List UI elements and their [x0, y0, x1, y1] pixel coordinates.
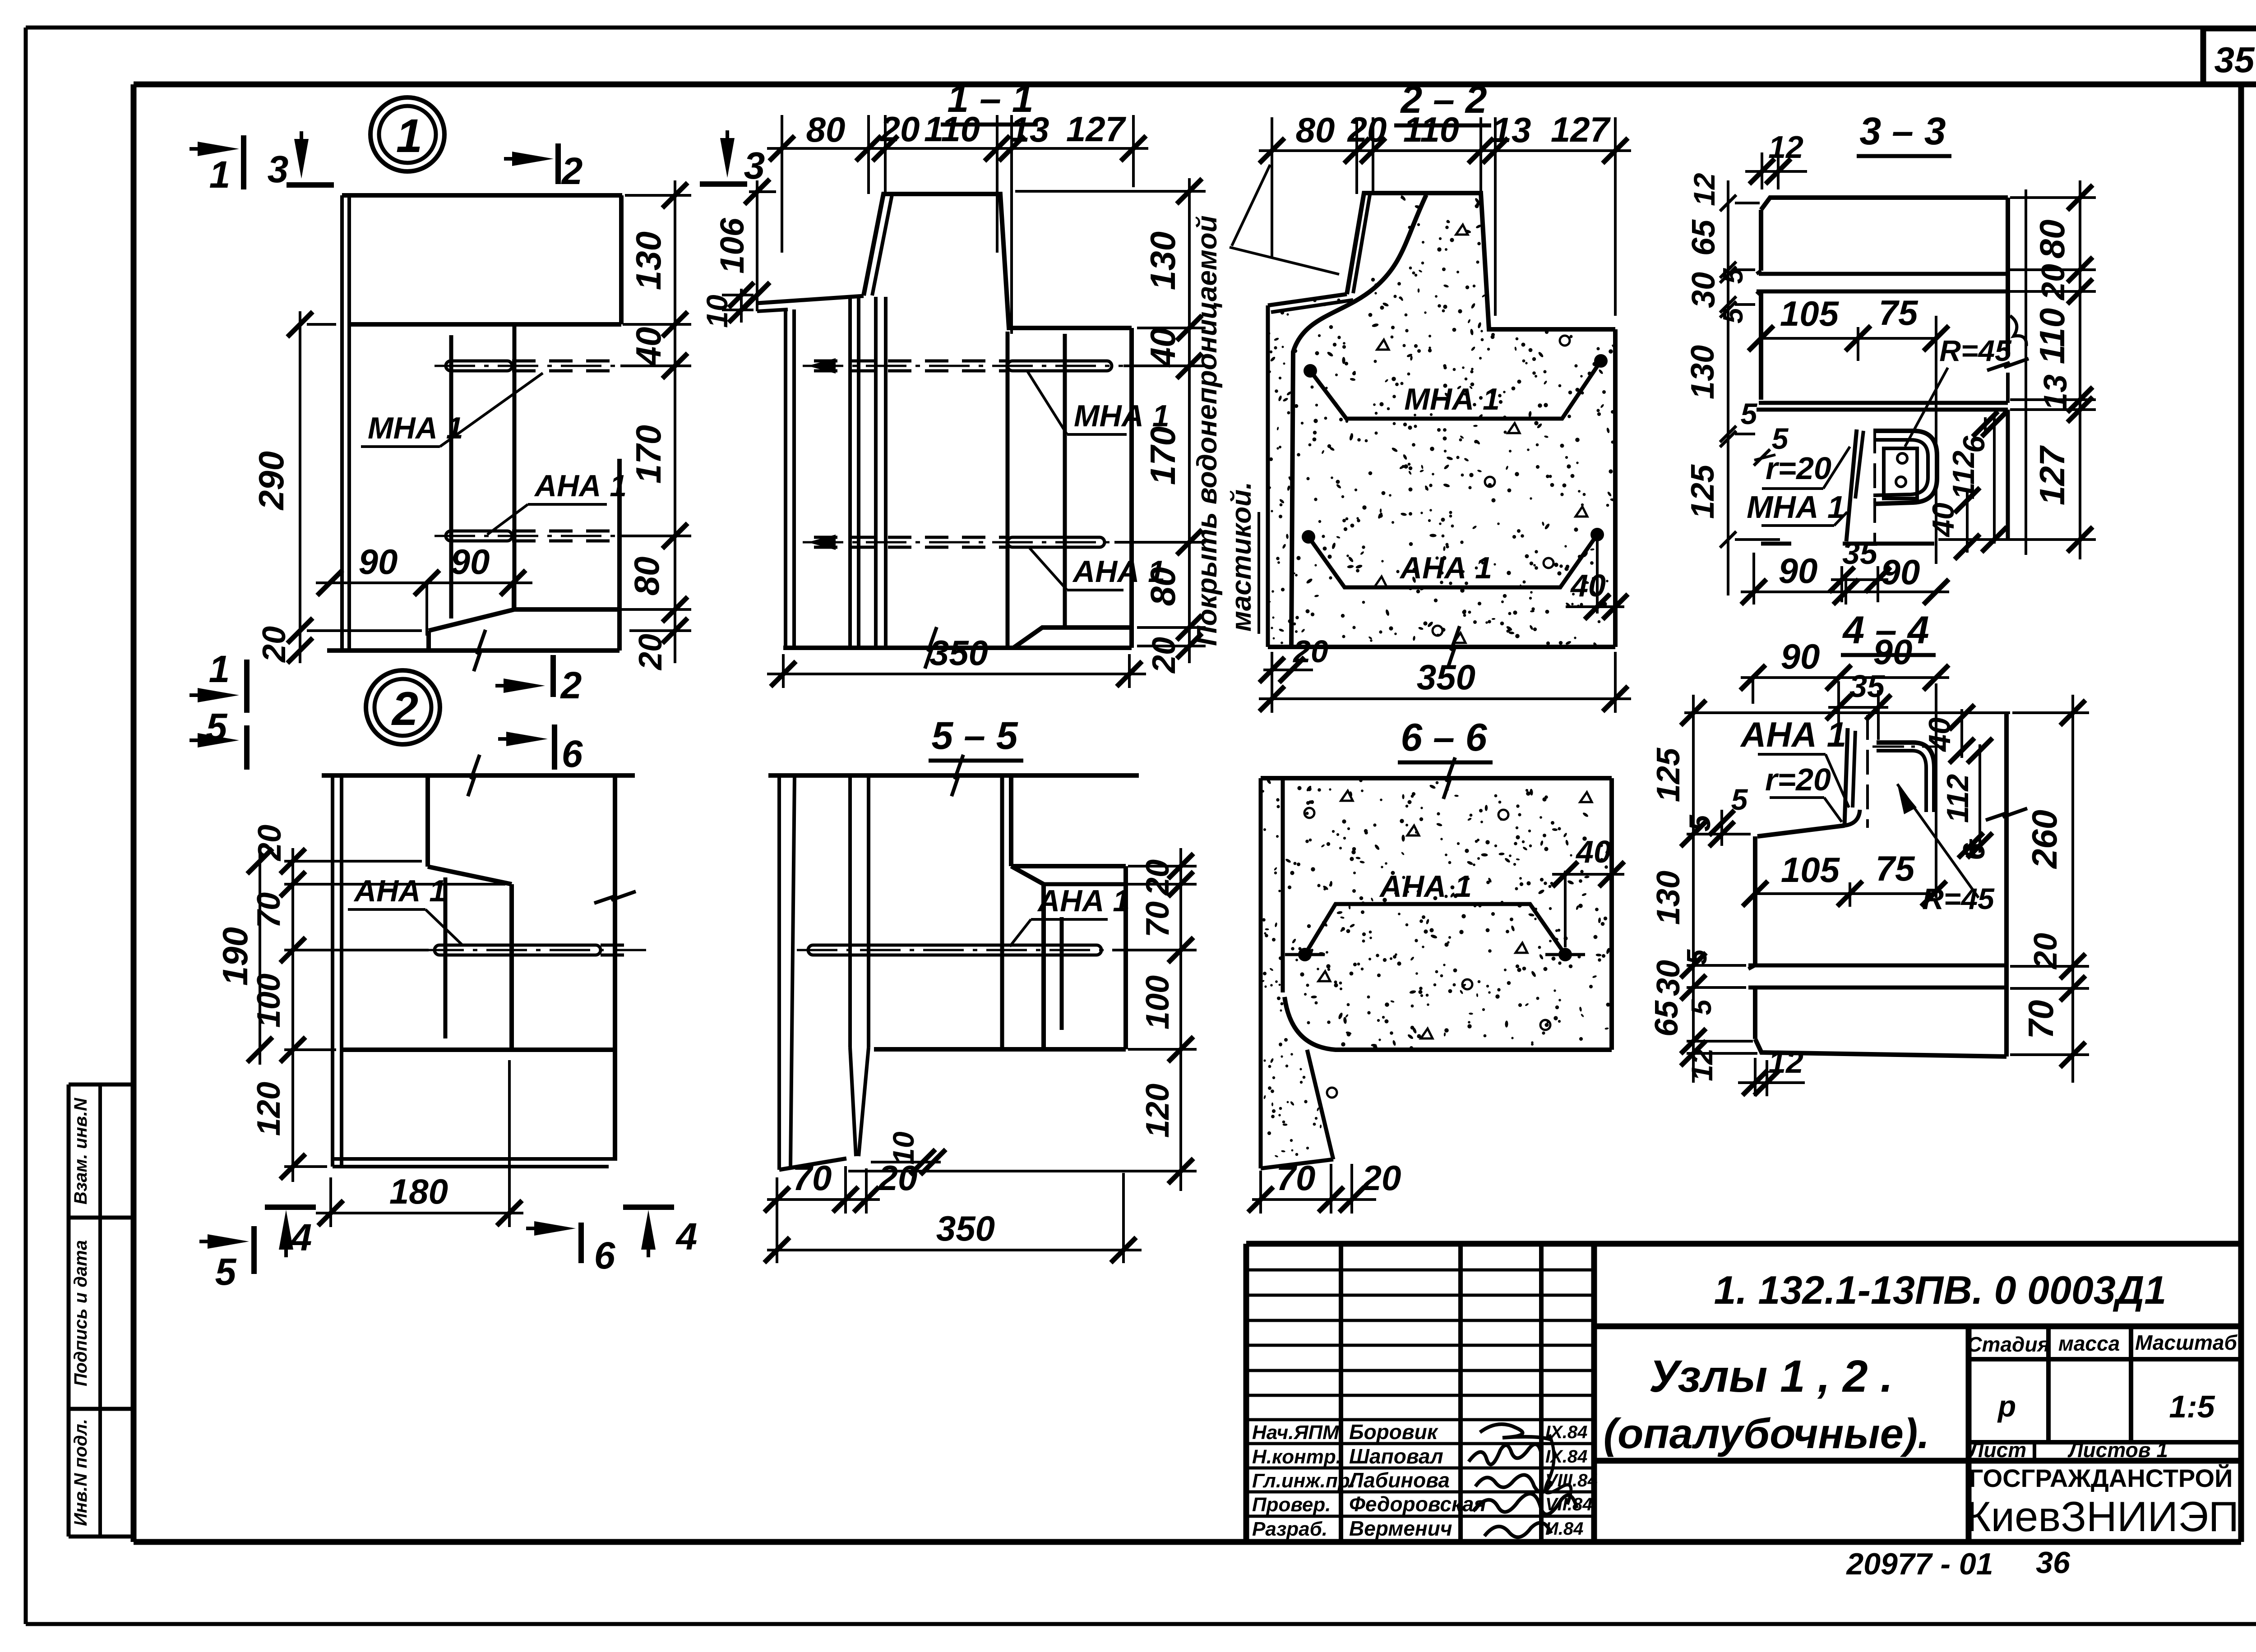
- svg-text:5: 5: [1683, 814, 1716, 831]
- svg-text:105: 105: [1780, 294, 1840, 333]
- signatures (handwritten): [1480, 1424, 1552, 1440]
- 2-2 top dim line: [1259, 149, 1631, 152]
- 6-6 scatter symbols: [1341, 791, 1353, 801]
- 3-3 anchor recess: [1846, 429, 1857, 541]
- marker 6 (right): [498, 737, 534, 741]
- svg-text:127: 127: [1551, 110, 1611, 149]
- svg-text:35: 35: [2214, 40, 2255, 80]
- svg-text:20977 - 01: 20977 - 01: [1845, 1547, 1993, 1581]
- svg-text:40: 40: [629, 327, 668, 367]
- svg-text:Лист: Лист: [1968, 1438, 2026, 1462]
- svg-text:90: 90: [451, 542, 490, 581]
- title block outer: [1246, 1241, 2241, 1247]
- svg-text:75: 75: [1876, 849, 1915, 888]
- svg-text:6: 6: [594, 1234, 616, 1277]
- svg-text:13: 13: [1492, 110, 1531, 150]
- 5-5 mid horizontal: [874, 1047, 1126, 1052]
- svg-text:5: 5: [1682, 949, 1713, 965]
- svg-text:65: 65: [1649, 1000, 1685, 1037]
- svg-text:АНА 1: АНА 1: [353, 874, 446, 908]
- view1 right dim chain: [674, 180, 676, 663]
- svg-text:АНА 1: АНА 1: [1399, 551, 1492, 585]
- svg-text:110: 110: [924, 109, 980, 149]
- anchor vertical (5-5): [1060, 917, 1064, 1030]
- view1 bottom slope: [429, 609, 619, 631]
- svg-text:5: 5: [215, 1251, 237, 1293]
- 5-5 second board pair: [848, 775, 852, 1047]
- stadia column: [1966, 1326, 1972, 1542]
- row Лист: [2033, 1442, 2036, 1461]
- svg-text:100: 100: [1140, 975, 1176, 1029]
- svg-text:5: 5: [1718, 268, 1749, 284]
- 4-4 band double lines: [1748, 964, 2006, 968]
- 1-1 right edge: [1129, 328, 1134, 648]
- svg-text:90: 90: [1881, 552, 1920, 592]
- svg-text:1. 132.1-13ПВ. 0 0003Д1: 1. 132.1-13ПВ. 0 0003Д1: [1714, 1268, 2167, 1312]
- svg-text:3 – 3: 3 – 3: [1859, 110, 1946, 153]
- 5-5 dim 350: [767, 1249, 1142, 1251]
- 3-3 anchor plate: [1884, 448, 1917, 498]
- section marker 1 (top left): [190, 147, 226, 151]
- svg-text:20: 20: [252, 825, 288, 862]
- svg-text:120: 120: [1140, 1084, 1176, 1138]
- 2-2 face curve: [1291, 195, 1426, 647]
- svg-text:190: 190: [215, 927, 255, 986]
- svg-text:R=45: R=45: [1939, 334, 2012, 367]
- 5-5 top edge: [768, 773, 1139, 778]
- 6-6 band lower slant: [1307, 1050, 1333, 1159]
- marker 4 (bottom left): [265, 1204, 316, 1210]
- svg-text:30: 30: [1686, 272, 1722, 308]
- marker 6 (bottom): [526, 1227, 562, 1230]
- anchor rod MHA1 (1-1): [1008, 361, 1112, 371]
- svg-text:30: 30: [1650, 960, 1687, 996]
- 2-2 bottom edge: [1268, 645, 1615, 649]
- 3-3 left edge mid: [1759, 291, 1763, 400]
- svg-text:110: 110: [1403, 110, 1459, 149]
- svg-text:130: 130: [1650, 871, 1687, 925]
- svg-text:4: 4: [290, 1216, 312, 1259]
- view2 left dim chain: [291, 848, 294, 1182]
- svg-text:170: 170: [1143, 426, 1183, 485]
- sheet inner frame: [134, 82, 2241, 88]
- svg-text:350: 350: [1417, 657, 1475, 697]
- 6-6 concrete stipple mass: [1429, 928, 1433, 932]
- MHA1 bent bar (2-2): [1310, 361, 1601, 419]
- svg-text:ГОСГРАЖДАНСТРОЙ: ГОСГРАЖДАНСТРОЙ: [1969, 1464, 2233, 1492]
- 6-6 top edge: [1261, 776, 1612, 780]
- 1-1 wall face verticals: [1006, 332, 1010, 648]
- svg-text:290: 290: [251, 451, 291, 511]
- svg-text:Федоровская: Федоровская: [1349, 1492, 1486, 1516]
- svg-text:Стадия: Стадия: [1967, 1333, 2049, 1356]
- view2 mid ledge: [342, 1047, 615, 1052]
- svg-text:350: 350: [929, 633, 988, 673]
- svg-text:106: 106: [713, 217, 751, 273]
- anchor rod AHA1 (1-1): [1008, 537, 1105, 547]
- svg-text:80: 80: [1143, 567, 1183, 606]
- svg-text:130: 130: [1685, 345, 1721, 399]
- dim 40 (2-2): [1596, 535, 1599, 614]
- svg-text:40: 40: [1143, 328, 1183, 368]
- svg-text:КиевЗНИИЭП: КиевЗНИИЭП: [1966, 1493, 2239, 1540]
- 4-4 dim 90 90: [1741, 676, 1949, 679]
- svg-text:20: 20: [878, 1158, 918, 1198]
- svg-text:100: 100: [251, 974, 287, 1028]
- view1 outline top: [342, 193, 622, 198]
- svg-text:мастикой.: мастикой.: [1226, 482, 1257, 632]
- svg-text:12: 12: [1685, 1048, 1719, 1081]
- svg-text:112: 112: [1941, 774, 1975, 823]
- svg-text:2: 2: [391, 683, 418, 735]
- svg-text:АНА 1: АНА 1: [1379, 869, 1472, 904]
- 2-2 left band edge: [1266, 305, 1270, 647]
- 6-6 left band inner: [1281, 778, 1285, 992]
- svg-text:Нач.ЯПМ: Нач.ЯПМ: [1252, 1421, 1340, 1444]
- 3-3 right dim chain: [2079, 180, 2081, 559]
- node circle 1: [370, 97, 444, 171]
- marker 4 (bottom right): [623, 1204, 674, 1210]
- svg-text:127: 127: [1066, 109, 1127, 149]
- svg-text:170: 170: [629, 425, 668, 484]
- svg-text:20: 20: [2035, 264, 2071, 301]
- svg-text:МНА 1: МНА 1: [1747, 489, 1845, 525]
- svg-text:Подпись и дата: Подпись и дата: [71, 1240, 91, 1386]
- 2-2 ledge: [1268, 294, 1347, 305]
- svg-text:r=20: r=20: [1765, 762, 1831, 797]
- 4-4 dim 105 75: [1755, 892, 1934, 895]
- svg-text:IX.84: IX.84: [1545, 1447, 1587, 1467]
- svg-text:20: 20: [633, 634, 669, 671]
- svg-text:20: 20: [2028, 933, 2064, 970]
- svg-text:1: 1: [209, 648, 230, 690]
- 4-4 left edge lower: [1753, 988, 1757, 1039]
- 3-3 band 1 double lines: [1759, 272, 2008, 276]
- svg-text:125: 125: [1685, 464, 1721, 519]
- 5-5 centre wall: [1000, 775, 1004, 1049]
- 1-1 left board: [784, 309, 787, 648]
- svg-text:АНА 1: АНА 1: [1740, 715, 1846, 754]
- svg-text:1: 1: [209, 153, 231, 196]
- svg-text:127: 127: [2032, 445, 2072, 505]
- view1 right edge upper: [619, 195, 624, 324]
- svg-text:20: 20: [256, 626, 292, 663]
- svg-text:АНА 1: АНА 1: [534, 469, 627, 503]
- 3-3 band bottom edge: [1843, 542, 1934, 546]
- 4-4 left edge: [1753, 836, 1757, 965]
- svg-text:70: 70: [1140, 901, 1176, 937]
- svg-text:90: 90: [1781, 637, 1820, 676]
- svg-text:40: 40: [1570, 568, 1606, 603]
- svg-text:13: 13: [2038, 374, 2074, 411]
- 3-3 right edge: [2006, 198, 2010, 356]
- view1 ledge: [349, 322, 621, 327]
- waterproofing leader: [1230, 247, 1339, 274]
- view1 bottom edge: [327, 648, 619, 653]
- document number box: [1594, 1324, 2241, 1329]
- view2 right edge: [613, 775, 617, 1159]
- view2 top edge: [322, 773, 635, 778]
- 2-2 scatter symbols: [1456, 225, 1468, 235]
- 6-6 bottom dims 70 20: [1252, 1198, 1376, 1201]
- view1 dim 90 90: [316, 581, 532, 584]
- view1 lower right edge: [617, 459, 622, 651]
- 2-2 dim 350: [1259, 697, 1631, 700]
- 4-4 right edge: [2004, 713, 2009, 1057]
- view1 left board double line: [340, 195, 344, 651]
- svg-text:120: 120: [251, 1082, 287, 1136]
- svg-text:70: 70: [1276, 1158, 1316, 1198]
- 3-3 left dim chain: [1727, 180, 1729, 595]
- AHA1 bent bar (6-6): [1305, 904, 1565, 955]
- 1-1 mid boards: [848, 297, 852, 648]
- 1-1 upstand outline: [864, 194, 1132, 328]
- svg-text:2: 2: [560, 664, 582, 706]
- svg-text:80: 80: [806, 110, 846, 149]
- section 1-1 top dim line: [767, 147, 1148, 150]
- svg-text:13: 13: [1010, 110, 1049, 149]
- left margin table: [69, 1084, 135, 1537]
- 1-1 ledge lines: [757, 296, 864, 303]
- svg-text:75: 75: [1879, 293, 1919, 332]
- svg-text:Масштаб: Масштаб: [2135, 1331, 2238, 1354]
- title block signature rows: [1246, 1269, 1594, 1272]
- svg-text:35: 35: [1849, 669, 1885, 704]
- svg-text:Узлы 1 , 2 .: Узлы 1 , 2 .: [1649, 1351, 1893, 1402]
- 3-3 dim 90 90: [1741, 591, 1949, 593]
- svg-text:Покрыть водонепроницаемой: Покрыть водонепроницаемой: [1192, 215, 1223, 646]
- svg-text:Боровик: Боровик: [1349, 1420, 1439, 1444]
- svg-text:масса: масса: [2058, 1332, 2120, 1355]
- svg-text:И.84: И.84: [1545, 1519, 1583, 1539]
- svg-text:2: 2: [561, 150, 583, 192]
- 4-4 anchor recess: [1845, 728, 1848, 826]
- svg-text:МНА 1: МНА 1: [1404, 382, 1500, 416]
- 2-2 bottom dim 20: [1263, 669, 1313, 671]
- svg-text:350: 350: [936, 1209, 995, 1248]
- 1-1 bottom edge: [783, 646, 1132, 650]
- svg-text:Шаповал: Шаповал: [1349, 1444, 1443, 1468]
- svg-text:Провер.: Провер.: [1252, 1494, 1331, 1516]
- svg-text:R=45: R=45: [1922, 882, 1995, 915]
- svg-text:5: 5: [1731, 783, 1748, 816]
- 5-5 ledge right: [1009, 775, 1013, 866]
- svg-text:20: 20: [1292, 634, 1328, 669]
- svg-text:40: 40: [1575, 834, 1611, 869]
- svg-text:180: 180: [389, 1172, 448, 1211]
- view2 left board: [331, 775, 334, 1167]
- svg-text:90: 90: [1779, 551, 1818, 591]
- svg-text:1: 1: [396, 110, 422, 162]
- view2 bottom double line: [333, 1157, 617, 1161]
- 6-6 left band outer: [1259, 778, 1263, 1168]
- svg-text:70: 70: [2021, 1000, 2061, 1039]
- 3-3 left edge upper: [1759, 210, 1763, 271]
- svg-text:(опалубочные).: (опалубочные).: [1604, 1410, 1930, 1457]
- svg-text:260: 260: [2025, 810, 2064, 869]
- 1-1 left dim 106: [756, 180, 758, 311]
- svg-text:Листов 1: Листов 1: [2067, 1438, 2168, 1462]
- svg-text:Разраб.: Разраб.: [1252, 1518, 1327, 1540]
- 1-1 left dim 10: [740, 289, 743, 323]
- svg-text:5: 5: [1741, 397, 1758, 430]
- svg-text:4: 4: [675, 1215, 698, 1258]
- AHA1 bent bar (2-2): [1308, 535, 1597, 587]
- svg-text:Гл.инж.пр.: Гл.инж.пр.: [1252, 1470, 1355, 1492]
- view1 inner vertical a: [449, 335, 453, 618]
- svg-text:Взам. инв.N: Взам. инв.N: [71, 1098, 91, 1204]
- 2-2 right edge: [1613, 329, 1618, 647]
- section marker 2 (top): [504, 157, 540, 161]
- node circle 2: [366, 670, 440, 744]
- svg-text:Инв.N подл.: Инв.N подл.: [71, 1419, 91, 1526]
- svg-text:20: 20: [1140, 859, 1176, 896]
- svg-text:130: 130: [1143, 231, 1183, 290]
- svg-text:р: р: [1997, 1389, 2016, 1423]
- svg-text:1:5: 1:5: [2169, 1389, 2215, 1424]
- view1 inner vertical b: [513, 324, 517, 609]
- svg-text:3: 3: [268, 148, 289, 190]
- svg-text:6: 6: [562, 733, 583, 775]
- 2-2 concrete stipple: [1365, 439, 1368, 443]
- svg-text:125: 125: [1650, 748, 1687, 802]
- svg-text:35: 35: [1842, 535, 1878, 571]
- svg-text:5: 5: [1718, 307, 1749, 323]
- 3-3 dim 105 75: [1761, 337, 1936, 340]
- svg-text:10: 10: [700, 295, 734, 328]
- 5-5 right dim chain: [1179, 848, 1182, 1191]
- svg-text:90: 90: [359, 542, 398, 581]
- 4-4 left dim chain: [1692, 695, 1695, 1083]
- svg-text:40: 40: [1923, 717, 1957, 752]
- view2 step profile: [425, 775, 430, 867]
- svg-text:36: 36: [2036, 1546, 2071, 1580]
- anchor rod MHA1 (view1): [446, 361, 512, 371]
- anchor vertical (view2): [444, 877, 448, 1038]
- 3-3 profile top: [1761, 198, 2008, 210]
- 4-4 top extension line: [1684, 711, 2010, 714]
- svg-text:АНА 1: АНА 1: [1037, 884, 1130, 918]
- svg-text:110: 110: [2032, 308, 2072, 364]
- title block signature columns: [1339, 1244, 1343, 1542]
- svg-text:65: 65: [1686, 219, 1722, 256]
- 5-5 left board: [777, 775, 781, 1170]
- marker 2 (right): [495, 684, 532, 688]
- svg-text:105: 105: [1781, 850, 1840, 890]
- svg-text:90: 90: [1873, 632, 1913, 672]
- svg-text:20: 20: [1146, 637, 1182, 674]
- svg-text:12: 12: [1687, 173, 1721, 206]
- svg-text:70: 70: [793, 1158, 832, 1198]
- 6-6 mass bottom with fillet: [1285, 997, 1612, 1050]
- 2-2 upstand outline: [1347, 193, 1615, 329]
- title text box: [1594, 1458, 2241, 1464]
- view1 left dim 290/20: [299, 311, 301, 663]
- svg-text:80: 80: [627, 557, 666, 596]
- svg-text:3: 3: [744, 144, 765, 187]
- svg-text:5: 5: [1772, 422, 1789, 455]
- 5-5 bottom dims 70 20: [767, 1198, 880, 1201]
- view2 dim 190: [259, 848, 261, 1065]
- svg-text:40: 40: [1926, 503, 1960, 538]
- sheet number box 35: [2201, 28, 2206, 84]
- anchor rod AHA1 (view2): [435, 945, 601, 955]
- svg-text:80: 80: [2032, 220, 2072, 259]
- 1-1 dim 350: [767, 673, 1146, 675]
- svg-text:20: 20: [1361, 1158, 1401, 1198]
- svg-text:20: 20: [880, 109, 920, 149]
- svg-text:20: 20: [1347, 110, 1387, 149]
- 4-4 profile top: [1757, 826, 1845, 836]
- svg-text:5 – 5: 5 – 5: [931, 714, 1018, 757]
- 4-4 right dim chain: [2071, 695, 2074, 1083]
- 1-1 right dim chain: [1188, 178, 1191, 663]
- svg-text:Лабинова: Лабинова: [1348, 1468, 1450, 1492]
- 6-6 right edge: [1609, 778, 1614, 1050]
- 3-3 band 2 double lines: [1759, 401, 2008, 405]
- svg-text:80: 80: [1296, 110, 1335, 150]
- svg-text:130: 130: [629, 231, 668, 290]
- svg-text:5: 5: [1686, 999, 1717, 1015]
- svg-text:6 – 6: 6 – 6: [1401, 716, 1487, 759]
- svg-text:Верменич: Верменич: [1349, 1517, 1452, 1540]
- svg-text:112: 112: [1946, 451, 1981, 500]
- anchor rod AHA1 (view1): [446, 531, 512, 541]
- view2 dim 180: [316, 1212, 523, 1214]
- svg-text:70: 70: [251, 892, 287, 928]
- anchor rod AHA1 (5-5): [808, 945, 1101, 955]
- svg-text:Н.контр.: Н.контр.: [1252, 1446, 1341, 1468]
- 1-1 bottom right step: [1013, 628, 1132, 648]
- sheet outer border: [26, 26, 2256, 30]
